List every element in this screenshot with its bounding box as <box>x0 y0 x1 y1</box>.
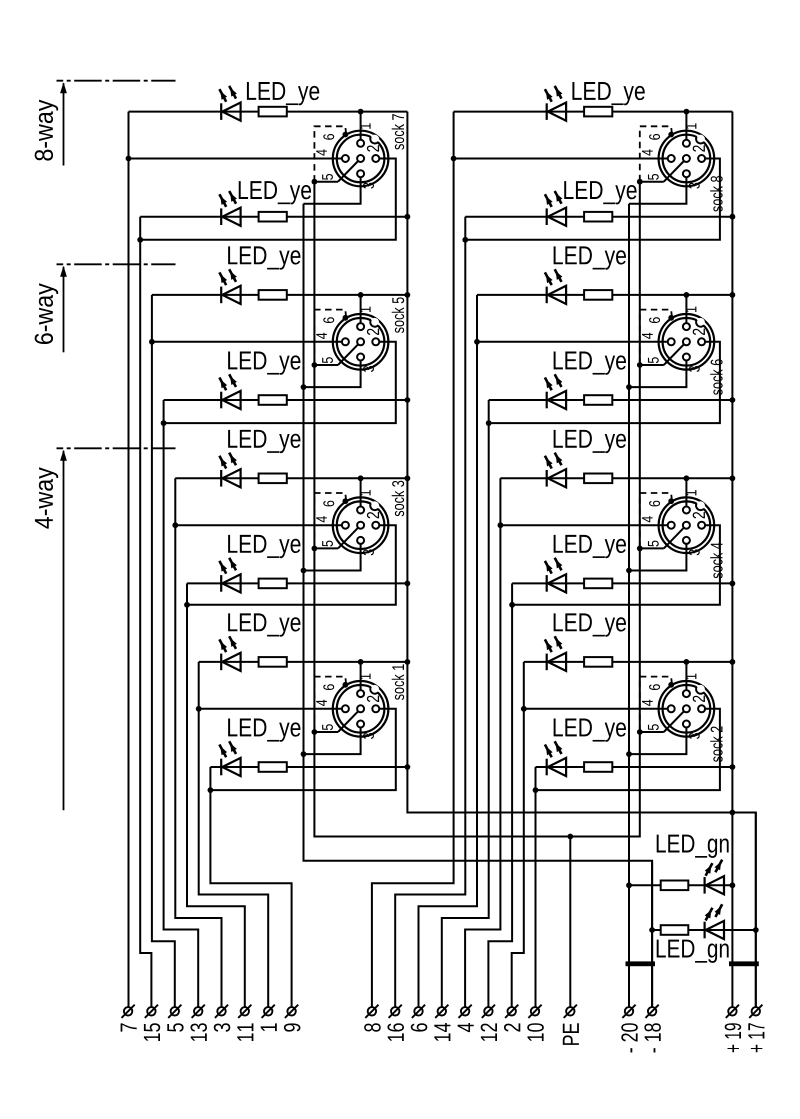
wire LED row left r2 <box>140 216 407 218</box>
wire pin1 sock 8 stub to LED row <box>685 112 687 147</box>
wire pin4 sock 5 to signal line <box>152 341 342 343</box>
socket sock 8 (M12 face view) <box>640 123 714 188</box>
wire pin2 sock 5 to signal line <box>164 342 396 423</box>
label LED_ye (left row 1) <box>247 82 319 105</box>
wire signal line terminal 2 <box>512 662 524 1007</box>
shield dashed link sock 1 (pin6/thread to PE) <box>314 677 346 730</box>
wire LED row left r8 <box>210 766 407 768</box>
label LED_ye (left row 2) <box>239 181 311 204</box>
shield dashed link sock 4 (pin6/thread to PE) <box>640 493 672 546</box>
wire pin3 sock 3 to minus bus <box>304 544 361 571</box>
socket sock 4 (M12 face view) <box>640 490 714 555</box>
shield dashed link sock 6 (pin6/thread to PE) <box>640 310 672 363</box>
junction dot pin1 sock 7 <box>358 109 364 115</box>
junction dot pin5 sock 1 on PE bus <box>312 729 318 735</box>
wire LED row left r1 (net terminal 7) <box>129 111 408 113</box>
junction dot LED_gn row B right <box>753 927 759 933</box>
junction dot row 4 at +V rail (left) <box>405 397 411 403</box>
junction dot pin4 sock 8 <box>451 156 457 162</box>
junction dot pin1 sock 6 <box>684 292 690 298</box>
wire pin1 sock 3 stub to LED row <box>360 478 362 513</box>
wire minus bus left (pin3 collection) <box>304 204 653 1007</box>
wire signal line terminal 14 <box>442 400 489 1007</box>
LED_ye indicator (right row 6) <box>546 575 548 592</box>
junction dot row 6 at +V rail (right) <box>730 581 736 587</box>
terminal 13 <box>190 1005 207 1041</box>
wire signal line terminal 11 <box>187 583 245 1007</box>
junction dot pin5 sock 8 (PE) <box>637 179 643 185</box>
junction dot pin3 sock 1 on minus bus <box>301 751 307 757</box>
label LED_ye (left row 4) <box>228 352 300 375</box>
wire signal line terminal 15 <box>140 217 151 1007</box>
wire pin3 sock 8 to minus bus <box>629 177 686 204</box>
wire LED row right r5 (net terminal 4) <box>500 477 732 479</box>
LED_ye indicator (left row 6) <box>220 575 222 592</box>
terminal 7 <box>121 1005 137 1032</box>
label sock 6 <box>710 359 722 395</box>
shield dot on body sock 7 <box>343 132 349 138</box>
socket sock 5 (M12 face view) <box>314 307 388 372</box>
junction dot pin4 sock 3 <box>172 522 178 528</box>
label sock 7 <box>392 114 404 150</box>
label LED_ye (left row 6) <box>228 535 300 558</box>
wire PE drop to terminal PE <box>569 837 571 1008</box>
shield dashed link sock 3 (pin6/thread to PE) <box>314 493 346 546</box>
wire pin3 sock 5 to minus bus <box>304 361 361 388</box>
junction dot row 6 at +V rail (left) <box>405 581 411 587</box>
junction dot row 3 at +V rail (left) <box>405 292 411 298</box>
label LED_ye (right row 8) <box>554 719 626 742</box>
shield dot on body sock 5 <box>343 315 349 321</box>
wire pin3 sock 4 to minus bus <box>629 544 686 571</box>
junction dot pin1 sock 2 <box>684 659 690 665</box>
LED_ye indicator (left row 2) <box>220 208 222 225</box>
label LED_ye (right row 5) <box>554 430 626 453</box>
junction dot LED_gn row A right <box>730 882 736 888</box>
wire minus bus right (pin3 collection, to terminal -20) <box>628 204 630 1007</box>
wire terminal -18 stub <box>651 861 653 1007</box>
junction dot row 7 at +V rail (right) <box>730 659 736 665</box>
junction dot pin3 sock 4 on minus bus <box>626 568 632 574</box>
resistor (right row 3) <box>584 290 612 300</box>
wire signal line terminal 9 <box>210 767 291 1007</box>
label LED_ye (right row 2) <box>564 181 636 204</box>
minus supply bus bar (-20/-18) <box>626 961 656 966</box>
shield dashed link sock 2 (pin6/thread to PE) <box>640 677 672 730</box>
wire +V rail left <box>407 112 755 1008</box>
wire pin1 sock 4 stub to LED row <box>685 478 687 513</box>
junction dot pin2 sock 2 <box>533 787 539 793</box>
wire pin1 sock 5 stub to LED row <box>360 295 362 330</box>
wire pin4 sock 4 to signal line <box>500 524 667 526</box>
junction dot pin5 sock 3 on PE bus <box>312 546 318 552</box>
terminal 9 <box>284 1005 301 1032</box>
terminal 10 <box>527 1005 544 1041</box>
label LED_ye (right row 6) <box>554 535 626 558</box>
wire pin2 sock 2 to signal line <box>536 709 720 790</box>
wire PE bus left <box>314 182 639 837</box>
wire signal line terminal 5 <box>152 295 175 1007</box>
wire pin1 sock 1 stub to LED row <box>360 662 362 697</box>
terminal 5 <box>167 1005 183 1032</box>
label 6-way <box>35 283 59 344</box>
dimension arrow 6-way <box>60 266 67 353</box>
label sock 1 <box>392 664 404 700</box>
wire pin2 sock 1 to signal line <box>210 709 395 790</box>
terminal 2 <box>504 1005 520 1032</box>
shield dashed link sock 7 (pin6/thread to PE) <box>314 126 346 179</box>
LED_ye indicator (right row 5) <box>546 470 548 487</box>
shield dot on body sock 6 <box>668 315 674 321</box>
wire LED_gn row A (minus to +19) <box>629 884 732 886</box>
junction dot pin4 sock 2 <box>521 706 527 712</box>
junction dot row 2 at +V rail (left) <box>405 214 411 220</box>
junction dot LED_gn row A left <box>626 882 632 888</box>
LED_ye indicator (left row 4) <box>220 392 222 409</box>
LED_ye indicator (right row 1) <box>546 103 548 120</box>
LED_ye indicator (right row 2) <box>546 208 548 225</box>
label LED_ye (left row 8) <box>228 719 300 742</box>
terminal 16 <box>387 1005 404 1041</box>
junction dot PE terminal drop <box>567 834 573 840</box>
socket sock 3 (M12 face view) <box>314 490 388 555</box>
LED_ye indicator (left row 3) <box>220 287 222 304</box>
resistor (left row 3) <box>259 290 287 300</box>
resistor (left row 2) <box>259 212 287 222</box>
wire LED row left r5 (net terminal 3) <box>175 477 407 479</box>
LED_ye indicator (left row 7) <box>220 654 222 671</box>
junction dot row 7 at +V rail (left) <box>405 659 411 665</box>
junction dot pin5 sock 6 on PE bus <box>637 362 643 368</box>
terminal 11 <box>237 1005 253 1041</box>
junction dot row 8 at +V rail (left) <box>405 764 411 770</box>
label LED_gn (upper) <box>657 835 729 858</box>
junction dot pin1 sock 5 <box>358 292 364 298</box>
shield dashed link sock 5 (pin6/thread to PE) <box>314 310 346 363</box>
junction dot pin2 sock 3 <box>184 602 190 608</box>
terminal -18 <box>644 1005 661 1053</box>
wire pin2 sock 8 to signal line <box>465 159 720 240</box>
terminal +17 <box>748 1005 764 1053</box>
wire pin4 sock 8 to signal line <box>454 158 668 160</box>
terminal 12 <box>481 1005 497 1041</box>
wire LED row right r4 <box>489 399 733 401</box>
LED_ye indicator (left row 8) <box>220 759 222 776</box>
wire pin2 sock 3 to signal line <box>187 525 396 605</box>
wire pin4 sock 2 to signal line <box>524 708 668 710</box>
wire LED row left r3 (net terminal 5) <box>152 294 408 296</box>
wire LED row right r7 (net terminal 2) <box>524 661 733 663</box>
label sock 8 <box>710 176 722 212</box>
wire LED_gn row B (-18 to +17) <box>652 929 756 931</box>
resistor (LED_gn row A) <box>661 881 689 891</box>
wire pin2 sock 4 to signal line <box>512 525 720 605</box>
junction dot pin2 sock 5 <box>161 420 167 426</box>
wire pin2 sock 7 to signal line <box>140 159 396 240</box>
resistor (right row 8) <box>584 762 612 772</box>
wire LED row left r6 <box>187 582 407 584</box>
terminal 15 <box>144 1005 160 1041</box>
label sock 5 <box>392 297 404 333</box>
wire pin1 sock 7 stub to LED row <box>360 112 362 147</box>
junction dot row 5 at +V rail (right) <box>730 475 736 481</box>
terminal 8 <box>364 1005 381 1032</box>
LED_ye indicator (right row 4) <box>546 392 548 409</box>
junction dot pin2 sock 6 <box>486 420 492 426</box>
wire pin3 sock 1 to minus bus <box>304 728 361 755</box>
junction dot pin5 sock 2 on PE bus <box>637 729 643 735</box>
terminal 1 <box>261 1005 277 1031</box>
wire signal line terminal 3 <box>175 478 221 1007</box>
junction dot LED_gn row B left <box>649 927 655 933</box>
wire LED row right r8 <box>536 766 733 768</box>
terminal 4 <box>458 1005 474 1032</box>
label LED_ye (right row 4) <box>554 352 626 375</box>
wire LED row right r6 <box>512 582 732 584</box>
junction dot row 8 at +V rail (right) <box>730 764 736 770</box>
wire pin4 sock 7 to signal line <box>129 158 342 160</box>
junction dot pin3 sock 5 on minus bus <box>301 384 307 390</box>
junction dot row 5 at +V rail (left) <box>405 475 411 481</box>
variant cut line 8-way (dash-dot) <box>57 80 176 82</box>
label LED_ye (right row 7) <box>554 613 626 636</box>
label 4-way <box>35 467 58 528</box>
wire signal line terminal 4 <box>465 478 500 1007</box>
label LED_ye (left row 3) <box>228 246 300 269</box>
wire pin1 sock 6 stub to LED row <box>685 295 687 330</box>
wire pin4 sock 1 to signal line <box>199 708 342 710</box>
junction dot pin3 sock 6 on minus bus <box>626 384 632 390</box>
wire signal line terminal 7 <box>128 112 130 1008</box>
wire pin3 sock 2 to minus bus <box>629 728 686 755</box>
wire signal line terminal 1 <box>199 662 269 1007</box>
terminal 14 <box>434 1005 450 1041</box>
dimension arrow 4-way <box>60 450 67 811</box>
shield dot on body sock 4 <box>668 498 674 504</box>
resistor (right row 2) <box>584 212 612 222</box>
LED_gn indicator row A <box>703 877 705 894</box>
wire LED row right r1 (net terminal 8) <box>454 111 733 113</box>
wire terminal +17 stub <box>755 813 757 1008</box>
junction dot row 3 at +V rail (right) <box>730 292 736 298</box>
resistor (LED_gn row B) <box>661 925 689 935</box>
shield dashed link sock 8 (pin6/thread to PE) <box>640 126 672 179</box>
socket sock 7 (M12 face view) <box>314 123 388 188</box>
shield dot on body sock 3 <box>343 498 349 504</box>
terminal PE <box>563 1005 579 1045</box>
resistor (left row 6) <box>259 579 287 589</box>
junction dot pin4 sock 4 <box>498 522 504 528</box>
label LED_ye (right row 1) <box>572 82 644 105</box>
wire LED row left r4 <box>164 399 408 401</box>
label LED_ye (left row 7) <box>228 613 300 636</box>
wire +V rail right (to terminal +19) <box>731 112 733 1008</box>
socket sock 1 (M12 face view) <box>314 674 388 739</box>
label sock 3 <box>392 481 404 517</box>
LED_ye indicator (right row 8) <box>546 759 548 776</box>
junction dot pin1 sock 8 <box>684 109 690 115</box>
wire signal line terminal 10 <box>535 767 537 1007</box>
junction dot pin1 sock 3 <box>358 475 364 481</box>
LED_ye indicator (right row 3) <box>546 287 548 304</box>
junction dot pin4 sock 6 <box>474 339 480 345</box>
junction dot +V rail right at bottom horizontal <box>730 810 736 816</box>
wire LED row right r3 (net terminal 6) <box>477 294 732 296</box>
LED_gn indicator row B <box>703 922 705 939</box>
wire pin3 sock 7 to minus bus <box>304 177 361 204</box>
junction dot pin4 sock 7 <box>126 156 132 162</box>
resistor (left row 4) <box>259 395 287 405</box>
wire pin2 sock 6 to signal line <box>489 342 720 423</box>
socket sock 6 (M12 face view) <box>640 307 714 372</box>
junction dot row 4 at +V rail (right) <box>730 397 736 403</box>
junction dot pin1 sock 1 <box>358 659 364 665</box>
terminal 3 <box>214 1005 231 1032</box>
resistor (left row 7) <box>259 657 287 667</box>
junction dot pin2 sock 1 <box>208 787 214 793</box>
plus supply bus bar (+19/+17) <box>729 961 759 966</box>
wire signal line terminal 13 <box>164 400 199 1007</box>
junction dot pin1 sock 4 <box>684 475 690 481</box>
wire signal line terminal 8 <box>372 112 454 1008</box>
resistor (left row 1) <box>259 107 287 117</box>
LED_ye indicator (left row 5) <box>220 470 222 487</box>
label LED_ye (right row 3) <box>554 246 626 269</box>
resistor (right row 5) <box>584 474 612 484</box>
label 8-way <box>35 100 59 161</box>
wire LED row left r7 (net terminal 1) <box>199 661 408 663</box>
junction dot pin5 sock 7 (PE) <box>312 179 318 185</box>
terminal +19 <box>725 1005 742 1053</box>
terminal 6 <box>411 1005 428 1032</box>
wire pin4 sock 6 to signal line <box>477 341 668 343</box>
wire signal line terminal 16 <box>395 217 465 1007</box>
shield dot on body sock 1 <box>343 682 349 688</box>
resistor (left row 5) <box>259 474 287 484</box>
junction dot row 2 at +V rail (right) <box>730 214 736 220</box>
wire pin1 sock 2 stub to LED row <box>685 662 687 697</box>
dimension arrow 8-way <box>60 82 67 165</box>
LED_ye indicator (left row 1) <box>220 103 222 120</box>
resistor (right row 1) <box>584 107 612 117</box>
variant cut line 4-way (dash-dot) <box>57 447 176 449</box>
shield dot on body sock 2 <box>668 682 674 688</box>
socket sock 2 (M12 face view) <box>640 674 714 739</box>
wire LED row right r2 <box>465 216 732 218</box>
label LED_ye (left row 5) <box>228 430 300 453</box>
resistor (right row 7) <box>584 657 612 667</box>
junction dot pin3 sock 3 on minus bus <box>301 568 307 574</box>
wire signal line terminal 12 <box>488 583 512 1007</box>
label sock 4 <box>710 543 722 579</box>
junction dot pin5 sock 5 on PE bus <box>312 362 318 368</box>
shield dot on body sock 8 <box>668 132 674 138</box>
junction dot pin2 sock 4 <box>509 602 515 608</box>
resistor (right row 6) <box>584 579 612 589</box>
resistor (left row 8) <box>259 762 287 772</box>
junction dot pin2 sock 7 <box>137 237 143 243</box>
label sock 2 <box>710 726 722 762</box>
junction dot pin2 sock 8 <box>462 237 468 243</box>
variant cut line 6-way (dash-dot) <box>57 263 176 265</box>
LED_ye indicator (right row 7) <box>546 654 548 671</box>
wire pin3 sock 6 to minus bus <box>629 361 686 388</box>
junction dot pin5 sock 4 on PE bus <box>637 546 643 552</box>
wire signal line terminal 6 <box>419 295 478 1007</box>
label LED_gn (lower) <box>657 940 729 963</box>
junction dot pin3 sock 2 on minus bus <box>626 751 632 757</box>
resistor (right row 4) <box>584 395 612 405</box>
junction dot pin4 sock 1 <box>196 706 202 712</box>
wire pin4 sock 3 to signal line <box>175 524 342 526</box>
terminal -20 <box>621 1005 638 1053</box>
junction dot pin4 sock 5 <box>149 339 155 345</box>
